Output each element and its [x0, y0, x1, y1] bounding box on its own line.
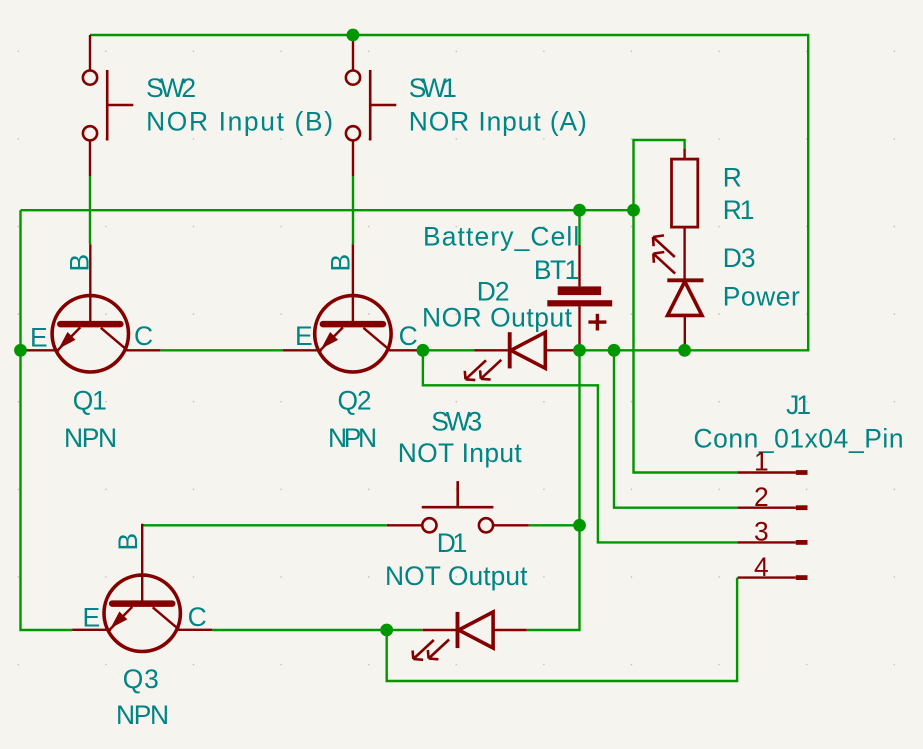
svg-text:B: B — [326, 254, 356, 272]
svg-text:C: C — [188, 602, 207, 632]
svg-text:2: 2 — [754, 482, 769, 512]
svg-text:J1: J1 — [786, 390, 811, 420]
svg-text:NOT Input: NOT Input — [398, 438, 523, 468]
svg-text:Conn_01x04_Pin: Conn_01x04_Pin — [694, 424, 904, 454]
svg-text:3: 3 — [754, 517, 769, 547]
svg-text:B: B — [65, 254, 95, 272]
svg-text:E: E — [30, 323, 48, 353]
svg-text:NPN: NPN — [328, 423, 377, 453]
svg-text:R1: R1 — [723, 195, 755, 225]
svg-text:NOR Input (B): NOR Input (B) — [146, 106, 333, 136]
svg-text:D3: D3 — [723, 243, 756, 273]
svg-text:SW3: SW3 — [431, 407, 482, 437]
svg-text:SW1: SW1 — [409, 73, 457, 103]
svg-text:1: 1 — [754, 447, 769, 477]
svg-text:BT1: BT1 — [534, 255, 579, 285]
svg-text:D1: D1 — [437, 528, 467, 558]
svg-text:SW2: SW2 — [146, 73, 196, 103]
svg-text:4: 4 — [754, 552, 769, 582]
svg-text:C: C — [134, 321, 153, 351]
svg-text:Q1: Q1 — [73, 386, 107, 416]
svg-text:Power: Power — [723, 281, 800, 311]
svg-text:NOR Input (A): NOR Input (A) — [409, 106, 587, 136]
svg-text:E: E — [295, 321, 313, 351]
svg-text:C: C — [399, 321, 418, 351]
svg-text:Q3: Q3 — [123, 664, 159, 694]
svg-text:NPN: NPN — [64, 423, 117, 453]
svg-text:NPN: NPN — [116, 700, 169, 730]
svg-text:Q2: Q2 — [338, 386, 372, 416]
svg-text:Battery_Cell: Battery_Cell — [423, 221, 579, 251]
svg-text:R: R — [723, 162, 742, 192]
svg-text:E: E — [83, 603, 101, 633]
svg-text:B: B — [113, 533, 143, 551]
svg-text:NOR Output: NOR Output — [422, 303, 573, 333]
svg-text:NOT Output: NOT Output — [385, 561, 528, 591]
